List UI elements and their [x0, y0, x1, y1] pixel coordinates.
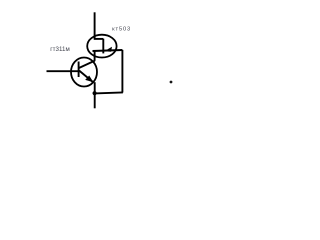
svg-text:кт503: кт503	[112, 27, 131, 33]
wire base lead VT1	[47, 70, 79, 72]
wire loop right vertical	[121, 50, 123, 93]
op circle VT2 (top transistor кт503)	[87, 35, 116, 58]
emitter arrowhead VT2 (points left to base bar)	[104, 47, 112, 52]
emitter arrowhead VT1 (points down-right)	[85, 76, 93, 83]
svg-text:гт311м: гт311м	[50, 46, 70, 53]
base bar VT2	[102, 39, 104, 54]
wire below junction	[94, 82, 96, 108]
junction node dot	[93, 91, 97, 95]
wire collector elbow to base bar VT2	[94, 38, 104, 40]
collector slant VT1	[79, 61, 95, 68]
emitter slant VT1	[79, 71, 93, 83]
wire collector lead VT2 top	[94, 12, 96, 39]
wire loop bottom horizontal	[95, 92, 123, 93]
wire base link vertical (VT2 base to VT1 collector)	[94, 51, 96, 61]
circle VT1 (bottom transistor гт311м)	[71, 58, 97, 87]
emitter line VT2	[93, 50, 123, 51]
stray dot mark	[170, 81, 173, 84]
base bar VT1	[78, 62, 80, 78]
